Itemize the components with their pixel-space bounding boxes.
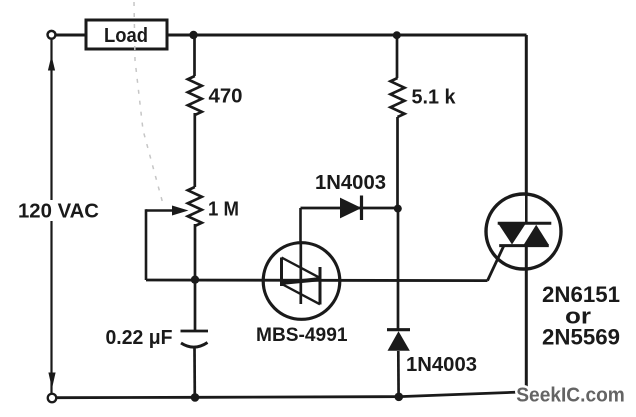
svg-text:2N5569: 2N5569 — [542, 325, 620, 350]
svg-text:120 VAC: 120 VAC — [18, 201, 99, 223]
svg-text:1N4003: 1N4003 — [315, 171, 386, 194]
svg-text:1N4003: 1N4003 — [406, 353, 477, 376]
svg-text:5.1 k: 5.1 k — [412, 87, 457, 109]
svg-text:Load: Load — [104, 25, 148, 47]
svg-text:MBS-4991: MBS-4991 — [256, 325, 348, 346]
svg-text:SeekIC.com: SeekIC.com — [516, 385, 625, 407]
svg-text:0.22 μF: 0.22 μF — [106, 327, 173, 349]
svg-text:1 M: 1 M — [208, 199, 239, 221]
svg-text:470: 470 — [209, 86, 243, 108]
